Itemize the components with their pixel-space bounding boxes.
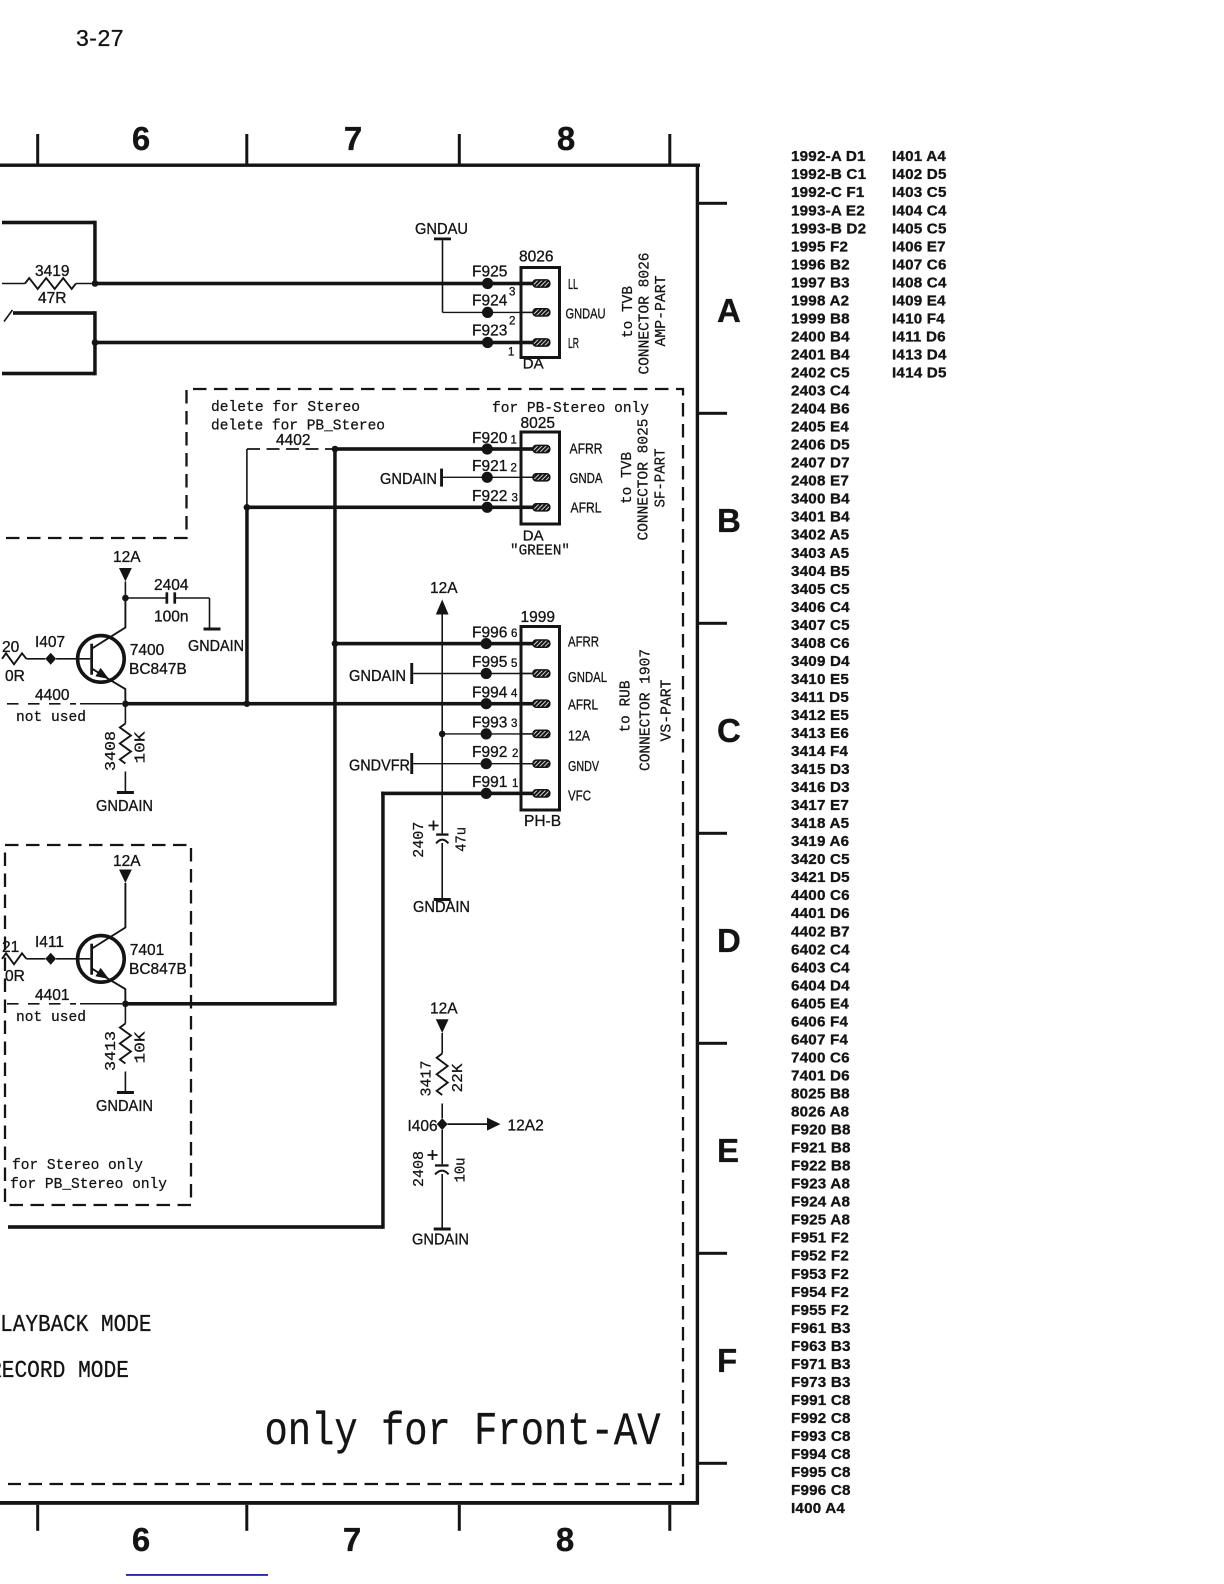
svg-text:BC847B: BC847B — [129, 661, 187, 678]
wire to F920 — [333, 447, 534, 451]
svg-text:VS-PART: VS-PART — [659, 680, 676, 742]
svg-text:3407 C5: 3407 C5 — [791, 617, 850, 634]
svg-text:3414 F4: 3414 F4 — [791, 743, 848, 760]
svg-text:CONNECTOR 1907: CONNECTOR 1907 — [637, 649, 654, 771]
svg-text:8: 8 — [556, 1521, 574, 1558]
wire GNDA pin 2 — [443, 476, 534, 478]
svg-text:AMP-PART: AMP-PART — [653, 276, 670, 347]
svg-text:delete for Stereo: delete for Stereo — [211, 400, 360, 416]
svg-text:PLAYBACK MODE: PLAYBACK MODE — [0, 1311, 152, 1338]
row ruler tick 1 — [697, 202, 727, 205]
svg-text:F925: F925 — [472, 264, 507, 281]
wire vertical upper-left — [93, 221, 97, 286]
svg-text:12A: 12A — [113, 549, 141, 566]
svg-text:3: 3 — [509, 287, 515, 299]
svg-text:SF-PART: SF-PART — [653, 449, 670, 508]
bottom border — [0, 1501, 699, 1505]
wire 4401 not used dashed — [7, 1003, 76, 1005]
svg-text:for PB-Stereo only: for PB-Stereo only — [492, 401, 649, 417]
fuse link F995 — [481, 668, 492, 679]
svg-text:"GREEN": "GREEN" — [510, 544, 570, 560]
bottom ruler tick 3 — [458, 1505, 461, 1531]
svg-text:A: A — [717, 292, 741, 329]
wire 4400 not used dashed — [7, 703, 76, 705]
svg-text:I405 C5: I405 C5 — [892, 220, 947, 237]
svg-text:F963 B3: F963 B3 — [791, 1338, 851, 1355]
pin 2 GNDV — [523, 763, 537, 765]
svg-text:I407: I407 — [35, 634, 65, 651]
svg-text:F954 F2: F954 F2 — [791, 1284, 849, 1301]
svg-text:3419 A6: 3419 A6 — [791, 833, 849, 850]
bottom ruler tick 1 — [36, 1505, 39, 1531]
svg-text:3: 3 — [512, 493, 518, 505]
svg-text:I406 E7: I406 E7 — [892, 238, 946, 255]
fuse link F991 — [481, 788, 492, 799]
svg-text:3400 B4: 3400 B4 — [791, 491, 850, 508]
svg-text:F920 B8: F920 B8 — [791, 1122, 851, 1139]
svg-text:GNDVFR: GNDVFR — [349, 758, 410, 775]
svg-text:1992-B C1: 1992-B C1 — [791, 166, 867, 183]
svg-text:GNDAIN: GNDAIN — [96, 798, 153, 815]
wire vertical to F922 — [245, 507, 249, 705]
svg-text:C: C — [717, 712, 741, 749]
svg-text:2401 B4: 2401 B4 — [791, 347, 850, 364]
svg-text:I410 F4: I410 F4 — [892, 310, 945, 327]
connector 8025 — [521, 432, 560, 524]
row ruler tick 4 — [697, 832, 727, 835]
top ruler tick 1 — [36, 134, 39, 164]
svg-text:I409 E4: I409 E4 — [892, 292, 946, 309]
svg-text:4402 B7: 4402 B7 — [791, 923, 850, 940]
svg-text:only for Front-AV: only for Front-AV — [265, 1405, 661, 1458]
node junction F922 branch — [244, 504, 251, 511]
svg-text:3412 E5: 3412 E5 — [791, 707, 849, 724]
svg-text:F996 C8: F996 C8 — [791, 1482, 851, 1499]
svg-text:D: D — [717, 922, 741, 959]
svg-text:3415 D3: 3415 D3 — [791, 761, 850, 778]
svg-text:3419: 3419 — [35, 263, 69, 280]
node emitter junction Q7401 — [122, 1001, 129, 1008]
fuse link F924 — [482, 307, 493, 318]
svg-text:I407 C6: I407 C6 — [892, 256, 947, 273]
svg-text:8026: 8026 — [519, 249, 553, 266]
connector 8026 — [521, 268, 560, 358]
svg-text:B: B — [717, 502, 741, 539]
fuse link F992 — [481, 758, 492, 769]
fuse link F923 — [482, 337, 493, 348]
svg-text:I406: I406 — [408, 1118, 438, 1135]
svg-text:3411 D5: 3411 D5 — [791, 689, 849, 706]
svg-text:F952 F2: F952 F2 — [791, 1248, 849, 1265]
resistor R3417 22K — [437, 1054, 448, 1096]
pin 3 AFRL — [523, 506, 537, 508]
fuse link F993 — [481, 728, 492, 739]
svg-text:2408 E7: 2408 E7 — [791, 473, 849, 490]
svg-text:VFC: VFC — [568, 788, 591, 805]
svg-text:12A: 12A — [430, 580, 458, 597]
svg-text:2405 E4: 2405 E4 — [791, 419, 849, 436]
svg-text:F924: F924 — [472, 293, 508, 310]
svg-text:8026 A8: 8026 A8 — [791, 1104, 849, 1121]
svg-text:DA: DA — [523, 356, 544, 373]
svg-text:10K: 10K — [132, 732, 149, 764]
pin 3 12A — [523, 733, 537, 735]
svg-text:6405 E4: 6405 E4 — [791, 995, 849, 1012]
capacitor C2404 100n — [125, 597, 166, 599]
transistor Q7400 — [78, 636, 125, 683]
svg-text:F994 C8: F994 C8 — [791, 1446, 851, 1463]
svg-text:F991 C8: F991 C8 — [791, 1392, 851, 1409]
svg-text:3416 D3: 3416 D3 — [791, 779, 850, 796]
svg-text:E: E — [717, 1132, 739, 1169]
svg-text:1: 1 — [512, 778, 518, 790]
wire 12A2 arrow — [448, 1123, 488, 1125]
svg-text:3406 C4: 3406 C4 — [791, 599, 850, 616]
wire VFC bottom return — [8, 1225, 383, 1229]
wire stub mid-left — [13, 311, 95, 315]
svg-text:for Stereo only: for Stereo only — [12, 1158, 143, 1174]
svg-text:2407: 2407 — [411, 822, 428, 858]
svg-text:3413 E6: 3413 E6 — [791, 725, 849, 742]
svg-text:6404 D4: 6404 D4 — [791, 977, 850, 994]
svg-text:F995: F995 — [472, 654, 507, 671]
svg-text:6: 6 — [132, 1521, 150, 1558]
blue scan mark — [126, 1574, 268, 1576]
svg-text:2407 D7: 2407 D7 — [791, 455, 850, 472]
svg-text:6402 C4: 6402 C4 — [791, 941, 850, 958]
wire GNDAU to pin 2 — [442, 240, 444, 312]
svg-text:22K: 22K — [450, 1064, 467, 1093]
row ruler tick 2 — [697, 412, 727, 415]
node junction F920 branch — [332, 446, 339, 453]
wire stub lower-left — [2, 372, 95, 376]
svg-text:100n: 100n — [154, 609, 188, 626]
svg-text:GNDAIN: GNDAIN — [96, 1098, 153, 1115]
svg-text:0R: 0R — [5, 968, 25, 985]
svg-text:I413 D4: I413 D4 — [892, 347, 947, 364]
fuse link F922 — [482, 502, 493, 513]
svg-text:1993-A E2: 1993-A E2 — [791, 202, 865, 219]
svg-text:F955 F2: F955 F2 — [791, 1302, 849, 1319]
pin 1 AFRR — [523, 448, 537, 450]
dashed wire 4402 — [247, 448, 334, 450]
capacitor C2407 47u — [436, 833, 448, 835]
wire 4402 vertical thin — [246, 449, 248, 507]
resistor R3419 — [2, 283, 25, 285]
inline link I406 — [437, 1118, 448, 1130]
inline link I407 — [45, 653, 56, 665]
svg-text:2: 2 — [512, 748, 518, 760]
svg-text:RECORD MODE: RECORD MODE — [0, 1357, 129, 1384]
wire vertical mid-left — [93, 311, 97, 375]
pin 6 AFRR — [523, 643, 537, 645]
svg-text:not used: not used — [16, 1010, 86, 1026]
svg-text:I400 A4: I400 A4 — [791, 1500, 845, 1517]
wire stub upper-left — [2, 221, 95, 225]
svg-text:F991: F991 — [472, 774, 507, 791]
svg-text:AFRR: AFRR — [570, 441, 603, 458]
svg-text:7400 C6: 7400 C6 — [791, 1049, 850, 1066]
svg-text:DA: DA — [523, 528, 544, 545]
svg-text:3420 C5: 3420 C5 — [791, 851, 850, 868]
node junction LL left — [92, 280, 99, 287]
svg-text:6403 C4: 6403 C4 — [791, 959, 850, 976]
svg-text:12A: 12A — [568, 728, 590, 745]
svg-text:1992-C F1: 1992-C F1 — [791, 184, 865, 201]
top ruler tick 4 — [668, 134, 671, 164]
svg-text:1997 B3: 1997 B3 — [791, 274, 850, 291]
svg-text:I404 C4: I404 C4 — [892, 202, 947, 219]
svg-text:for PB_Stereo only: for PB_Stereo only — [10, 1177, 167, 1193]
svg-text:10u: 10u — [452, 1158, 469, 1183]
svg-text:F973 B3: F973 B3 — [791, 1374, 851, 1391]
dashed boundary: stereo option box around Q7401 — [5, 845, 191, 1205]
svg-text:AFRL: AFRL — [571, 500, 602, 517]
top ruler tick 3 — [458, 134, 461, 164]
ground GNDAIN C2408 — [434, 1228, 451, 1231]
wire GNDAL pin 5 — [413, 673, 534, 675]
svg-text:F971 B3: F971 B3 — [791, 1356, 851, 1373]
wire base Q7401 — [56, 958, 90, 960]
svg-text:2404: 2404 — [154, 577, 189, 594]
pin 1 LR — [523, 342, 537, 344]
wire VFC vertical — [381, 792, 385, 1229]
svg-text:GNDV: GNDV — [568, 758, 599, 775]
row ruler tick 5 — [697, 1042, 727, 1045]
svg-text:7401 D6: 7401 D6 — [791, 1068, 850, 1085]
svg-text:F: F — [717, 1342, 737, 1379]
svg-text:47R: 47R — [38, 290, 66, 307]
svg-text:1999 B8: 1999 B8 — [791, 310, 850, 327]
svg-text:AFRR: AFRR — [568, 634, 599, 651]
svg-text:4401: 4401 — [35, 987, 69, 1004]
fuse link F920 — [482, 443, 493, 454]
svg-text:2: 2 — [509, 316, 515, 328]
svg-text:4401 D6: 4401 D6 — [791, 905, 850, 922]
wire 12A pin 3 — [442, 733, 534, 735]
svg-text:3402 A5: 3402 A5 — [791, 527, 850, 544]
svg-text:GNDAIN: GNDAIN — [188, 638, 244, 655]
dashed boundary: Front-AV option region — [6, 389, 683, 1484]
svg-text:F992 C8: F992 C8 — [791, 1410, 851, 1427]
svg-text:8025: 8025 — [521, 415, 555, 432]
fuse link F925 — [482, 278, 493, 289]
resistor R3408 10K — [124, 704, 126, 724]
node emitter junction Q7400 — [122, 701, 129, 708]
svg-text:7: 7 — [344, 120, 362, 157]
node junction 12A pin — [439, 731, 446, 738]
svg-text:GNDAIN: GNDAIN — [349, 668, 406, 685]
wire 12A vertical — [441, 615, 443, 834]
svg-text:F953 F2: F953 F2 — [791, 1266, 849, 1283]
svg-text:7: 7 — [343, 1521, 361, 1558]
svg-text:2404 B6: 2404 B6 — [791, 401, 850, 418]
svg-text:6407 F4: 6407 F4 — [791, 1031, 848, 1048]
cut mark — [4, 310, 13, 322]
svg-text:GNDAL: GNDAL — [568, 669, 607, 686]
node junction AFRL/F922 branch — [244, 700, 251, 707]
svg-text:2400 B4: 2400 B4 — [791, 328, 850, 345]
node junction LR left — [92, 339, 99, 346]
resistor R3421 stub — [2, 953, 26, 964]
svg-text:10K: 10K — [132, 1032, 149, 1064]
wire GNDV pin 2 — [413, 763, 534, 765]
svg-text:GNDA: GNDA — [570, 470, 603, 487]
svg-text:2406 D5: 2406 D5 — [791, 437, 850, 454]
svg-text:F920: F920 — [472, 430, 508, 447]
svg-text:F993: F993 — [472, 715, 507, 732]
pin 3 LL — [523, 283, 537, 285]
svg-text:F992: F992 — [472, 744, 507, 761]
svg-text:F996: F996 — [472, 625, 507, 642]
svg-text:F951 F2: F951 F2 — [791, 1230, 849, 1247]
svg-text:4402: 4402 — [276, 432, 310, 449]
svg-text:3418 A5: 3418 A5 — [791, 815, 850, 832]
svg-text:LR: LR — [568, 335, 579, 352]
transistor Q7401 — [92, 883, 125, 949]
svg-text:2403 C4: 2403 C4 — [791, 383, 850, 400]
svg-text:47u: 47u — [453, 827, 470, 852]
svg-text:5: 5 — [511, 658, 517, 670]
capacitor C2408 10u — [441, 1130, 443, 1164]
svg-text:1996 B2: 1996 B2 — [791, 256, 850, 273]
svg-text:1: 1 — [511, 435, 517, 447]
svg-text:4: 4 — [511, 688, 518, 700]
top ruler tick 2 — [245, 134, 248, 164]
bottom ruler tick 4 — [668, 1505, 671, 1531]
ground GNDAIN R3408 — [117, 791, 134, 794]
fuse link F994 — [481, 698, 492, 709]
svg-text:2408: 2408 — [411, 1151, 428, 1187]
node collector junction — [122, 595, 129, 602]
svg-text:0R: 0R — [5, 668, 25, 685]
pin 5 GNDAL — [523, 673, 537, 675]
svg-text:GNDAU: GNDAU — [415, 221, 468, 238]
svg-text:F925 A8: F925 A8 — [791, 1212, 850, 1229]
svg-text:3413: 3413 — [103, 1031, 120, 1071]
svg-text:3401 B4: 3401 B4 — [791, 509, 850, 526]
ground GNDAIN R3413 — [117, 1091, 134, 1094]
svg-text:F923: F923 — [472, 323, 507, 340]
svg-text:LL: LL — [568, 276, 578, 293]
svg-text:F922: F922 — [472, 488, 507, 505]
wire Q7401 emitter to vertical — [125, 1002, 336, 1006]
svg-text:F994: F994 — [472, 685, 508, 702]
svg-text:3-27: 3-27 — [76, 25, 124, 51]
wire vertical F920-AFRR-emitter — [333, 449, 337, 1004]
svg-text:I403 C5: I403 C5 — [892, 184, 947, 201]
svg-text:1998 A2: 1998 A2 — [791, 292, 849, 309]
svg-text:1995 F2: 1995 F2 — [791, 238, 848, 255]
svg-text:7401: 7401 — [130, 942, 164, 959]
svg-text:4400: 4400 — [35, 687, 70, 704]
svg-text:20: 20 — [2, 639, 20, 656]
wire VFC horizontal — [381, 792, 534, 796]
row ruler tick 6 — [697, 1252, 727, 1255]
svg-text:F993 C8: F993 C8 — [791, 1428, 851, 1445]
svg-text:3421 D5: 3421 D5 — [791, 869, 850, 886]
svg-text:AFRL: AFRL — [568, 697, 598, 714]
svg-text:8: 8 — [557, 120, 575, 157]
svg-text:3410 E5: 3410 E5 — [791, 671, 849, 688]
svg-text:1992-A D1: 1992-A D1 — [791, 148, 866, 165]
svg-text:GNDAIN: GNDAIN — [413, 899, 470, 916]
svg-text:F922 B8: F922 B8 — [791, 1158, 851, 1175]
pin 4 AFRL — [523, 703, 537, 705]
wire LL to connector 8026 — [93, 282, 534, 286]
svg-text:12A: 12A — [430, 1001, 458, 1018]
top ruler border — [0, 164, 700, 167]
svg-text:1: 1 — [508, 347, 514, 359]
ground GNDAIN C2404 — [204, 628, 221, 631]
svg-text:to TVB: to TVB — [619, 452, 636, 504]
wire to F922 — [245, 506, 534, 510]
svg-text:1993-B D2: 1993-B D2 — [791, 220, 866, 237]
svg-text:to RUB: to RUB — [617, 681, 634, 733]
svg-text:F921: F921 — [472, 458, 507, 475]
svg-text:3403 A5: 3403 A5 — [791, 545, 850, 562]
svg-text:F961 B3: F961 B3 — [791, 1320, 851, 1337]
svg-text:6: 6 — [132, 120, 150, 157]
svg-text:21: 21 — [2, 939, 19, 956]
pin 2 GNDA — [523, 476, 537, 478]
svg-text:BC847B: BC847B — [129, 961, 187, 978]
svg-text:CONNECTOR 8025: CONNECTOR 8025 — [636, 419, 653, 541]
right border — [696, 164, 699, 1505]
bottom ruler tick 2 — [245, 1505, 248, 1531]
svg-text:I408 C4: I408 C4 — [892, 274, 947, 291]
inline link I411 — [45, 953, 56, 965]
svg-text:2402 C5: 2402 C5 — [791, 365, 850, 382]
wire AFRL from Q7400 emitter — [125, 702, 534, 706]
svg-text:I414 D5: I414 D5 — [892, 365, 947, 382]
svg-text:GNDAIN: GNDAIN — [380, 471, 437, 488]
svg-text:3408 C6: 3408 C6 — [791, 635, 850, 652]
svg-text:I411: I411 — [35, 934, 64, 951]
svg-text:2: 2 — [511, 463, 517, 475]
svg-text:4400 C6: 4400 C6 — [791, 887, 850, 904]
svg-text:6: 6 — [511, 628, 517, 640]
ground GNDAIN C2407 — [434, 898, 451, 901]
svg-text:7400: 7400 — [130, 642, 165, 659]
wire LR to connector 8026 — [93, 341, 534, 345]
resistor R3420 stub — [2, 653, 26, 664]
row ruler tick 3 — [697, 622, 727, 625]
svg-text:to TVB: to TVB — [620, 286, 637, 338]
svg-text:F921 B8: F921 B8 — [791, 1140, 851, 1157]
svg-text:3409 D4: 3409 D4 — [791, 653, 850, 670]
svg-text:12A2: 12A2 — [508, 1118, 544, 1135]
svg-text:8025 B8: 8025 B8 — [791, 1086, 850, 1103]
svg-text:I401 A4: I401 A4 — [892, 148, 946, 165]
svg-text:F995 C8: F995 C8 — [791, 1464, 851, 1481]
svg-text:GNDAU: GNDAU — [566, 306, 606, 323]
svg-text:CONNECTOR 8026: CONNECTOR 8026 — [636, 253, 653, 375]
svg-text:3405 C5: 3405 C5 — [791, 581, 850, 598]
svg-text:PH-B: PH-B — [524, 813, 561, 830]
svg-text:I411 D6: I411 D6 — [892, 328, 946, 345]
svg-text:GNDAIN: GNDAIN — [412, 1232, 469, 1249]
fuse link F996 — [481, 638, 492, 649]
svg-text:I402 D5: I402 D5 — [892, 166, 947, 183]
svg-text:F923 A8: F923 A8 — [791, 1176, 850, 1193]
svg-text:3404 B5: 3404 B5 — [791, 563, 850, 580]
svg-text:not used: not used — [16, 710, 86, 726]
wire base Q7400 — [56, 658, 90, 660]
svg-text:3417 E7: 3417 E7 — [791, 797, 849, 814]
svg-text:3417: 3417 — [418, 1061, 435, 1097]
svg-text:12A: 12A — [113, 853, 141, 870]
